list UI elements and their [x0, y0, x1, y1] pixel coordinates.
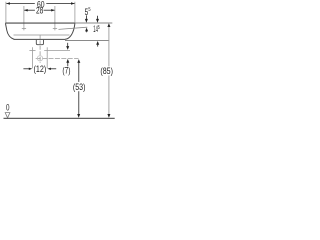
- dimension (85) upper arrow: [107, 23, 110, 27]
- basin right profile curve: [65, 23, 75, 39]
- basin bottom edge: [14, 38, 66, 40]
- reference line L4 lower right: [65, 39, 109, 41]
- 5 degree slope line L2: [59, 27, 88, 29]
- drain circle: [37, 56, 42, 61]
- dimension (7) upper arrow: [67, 43, 69, 47]
- wire extension line left of 28 dim: [23, 6, 25, 26]
- svg-text:0: 0: [6, 102, 10, 112]
- dimension (85) lower line and arrow: [108, 76, 110, 115]
- basin left profile: [5, 23, 14, 39]
- dimension (53) upper arrow: [77, 59, 80, 63]
- dimension (12) left tail and arrow: [23, 68, 29, 70]
- arrow 28 left: [24, 9, 28, 12]
- svg-text:28: 28: [36, 6, 43, 16]
- basin top edge extension to right: [75, 22, 112, 24]
- svg-text:(85): (85): [100, 66, 113, 76]
- horizontal centerline of drain: [36, 57, 79, 59]
- basin interior rear edge line: [14, 34, 70, 36]
- floor line: [4, 117, 115, 119]
- dimension (12) right tail and arrow: [51, 68, 57, 70]
- wire extension line left of 60 dim: [5, 2, 7, 23]
- svg-text:5: 5: [88, 7, 90, 13]
- arrow 60 right: [71, 2, 75, 5]
- fixing hole cross left: [22, 27, 26, 29]
- vertical centerline of drain: [39, 35, 41, 63]
- trap cross left: [29, 50, 35, 52]
- dimension 60 line: [6, 3, 34, 5]
- svg-text:(7): (7): [62, 66, 70, 76]
- svg-text:(53): (53): [73, 82, 86, 92]
- dimension (53) lower line and arrow: [78, 91, 80, 114]
- wire extension line right of 60 dim: [74, 2, 76, 23]
- datum triangle: [5, 113, 10, 118]
- arrow 60 left: [6, 2, 10, 5]
- drain trap cup: [36, 40, 43, 45]
- svg-text:(12): (12): [34, 64, 47, 74]
- arrow 28 right: [51, 9, 55, 12]
- arrow 5deg down: [85, 15, 87, 19]
- wire extension line right of 28 dim: [54, 6, 56, 26]
- svg-text:5: 5: [98, 25, 100, 31]
- arrow 5deg up at slope line: [85, 28, 88, 32]
- fixing hole cross right: [53, 27, 57, 29]
- dimension 28 line: [24, 9, 35, 11]
- trap cross right: [46, 47, 48, 68]
- basin top edge: [5, 22, 75, 24]
- dimension (7) lower arrow: [66, 59, 69, 63]
- arrow 14deg down: [97, 16, 99, 19]
- reference line L5 through right cross: [44, 50, 70, 52]
- arrow 14deg up at L4: [96, 41, 99, 45]
